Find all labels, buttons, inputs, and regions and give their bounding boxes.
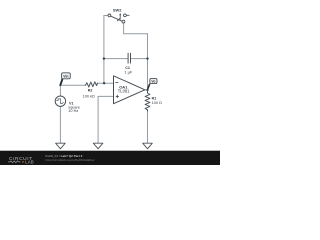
- svg-text:100 kΩ: 100 kΩ: [83, 94, 95, 98]
- svg-text:100 Ω: 100 Ω: [152, 101, 162, 105]
- ground below op-amp plus: [93, 143, 103, 149]
- resistor R1: [145, 90, 150, 111]
- logo zigzag: [8, 161, 21, 163]
- wire capacitor right: [131, 58, 148, 60]
- svg-text:SW2: SW2: [113, 8, 122, 13]
- node Vin flag box: [62, 73, 71, 79]
- svg-text:http://circuitlab.com/c/5e651b: http://circuitlab.com/c/5e651bda8re/: [46, 158, 95, 162]
- svg-text:R2: R2: [88, 89, 93, 93]
- watermark bar: [0, 151, 220, 165]
- svg-text:10 Hz: 10 Hz: [68, 109, 78, 113]
- svg-text:LAB: LAB: [25, 160, 34, 165]
- svg-text:Vin: Vin: [63, 74, 68, 78]
- node Vo flag box: [150, 78, 157, 83]
- wire R1 bottom: [147, 111, 149, 143]
- svg-text:Vo: Vo: [151, 80, 155, 84]
- wire switch throw down: [124, 23, 148, 34]
- junction dot output: [146, 89, 148, 91]
- resistor R2: [86, 82, 98, 87]
- wire Vin horizontal: [60, 84, 85, 86]
- node Vin flag tail: [60, 79, 62, 85]
- logo orange mark: [22, 161, 24, 163]
- op-amp plus sign: [116, 95, 119, 98]
- wire R2 to op-amp minus: [98, 82, 114, 84]
- wire plus ground vertical: [97, 96, 99, 143]
- capacitor C1: [128, 53, 130, 63]
- op-amp minus sign: [116, 82, 118, 84]
- ground below R1: [143, 143, 153, 149]
- wire switch common stub: [104, 15, 108, 17]
- svg-text:1 µF: 1 µF: [124, 70, 133, 75]
- V1 square wave glyph: [57, 99, 64, 104]
- svg-text:Kurt6_01 / Lab7 Q2 Part 3: Kurt6_01 / Lab7 Q2 Part 3: [46, 154, 83, 158]
- junction dot inverting input: [103, 82, 105, 84]
- svg-text:TL081: TL081: [118, 89, 130, 94]
- wire left feedback vertical: [103, 16, 105, 84]
- junction dot cap-right: [146, 57, 148, 59]
- ground below V1: [56, 143, 66, 149]
- wire V1 top: [59, 85, 61, 96]
- voltage source V1: [55, 96, 65, 106]
- wire V1 bottom: [59, 106, 61, 143]
- wire op-amp plus: [98, 95, 113, 97]
- wire capacitor left: [104, 58, 128, 60]
- wire right vertical: [147, 34, 149, 90]
- junction dot cap-left: [103, 57, 105, 59]
- switch SW2: [108, 13, 129, 23]
- node Vo flag tail: [148, 84, 150, 88]
- wire output stub: [145, 89, 148, 91]
- op-amp U1: [114, 76, 145, 104]
